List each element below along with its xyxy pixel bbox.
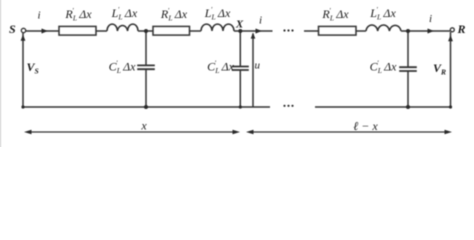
svg-text:L′LΔx: L′LΔx: [111, 6, 138, 22]
svg-text:S: S: [9, 22, 16, 36]
svg-text:u: u: [255, 60, 261, 72]
svg-text:R′LΔx: R′LΔx: [64, 7, 92, 23]
svg-text:x: x: [140, 119, 147, 133]
svg-text:i: i: [37, 9, 40, 21]
svg-text:X: X: [235, 19, 244, 31]
svg-text:C′LΔx: C′LΔx: [207, 60, 235, 76]
svg-text:VR: VR: [433, 61, 446, 77]
svg-text:ℓ − x: ℓ − x: [353, 119, 378, 133]
svg-text:R′LΔx: R′LΔx: [321, 7, 349, 23]
svg-text:R′LΔx: R′LΔx: [160, 7, 188, 23]
svg-text:VS: VS: [27, 60, 39, 76]
svg-text:L′LΔx: L′LΔx: [369, 6, 396, 22]
svg-text:i: i: [429, 13, 432, 25]
svg-text:i: i: [259, 15, 262, 27]
svg-text:C′LΔx: C′LΔx: [370, 60, 398, 76]
svg-text:L′LΔx: L′LΔx: [204, 6, 231, 22]
svg-text:R: R: [456, 22, 465, 36]
svg-text:C′LΔx: C′LΔx: [109, 60, 137, 76]
